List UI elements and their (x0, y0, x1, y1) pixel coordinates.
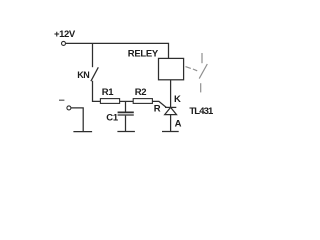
svg-text:R2: R2 (135, 87, 147, 98)
svg-text:C1: C1 (106, 113, 119, 124)
svg-text:R1: R1 (102, 87, 115, 98)
svg-text:R: R (154, 104, 161, 115)
svg-text:+12V: +12V (54, 29, 76, 40)
svg-text:RELEY: RELEY (128, 48, 159, 59)
svg-text:K: K (174, 94, 181, 105)
svg-text:A: A (175, 119, 182, 130)
svg-text:KN: KN (77, 70, 89, 80)
svg-text:TL431: TL431 (189, 106, 214, 117)
